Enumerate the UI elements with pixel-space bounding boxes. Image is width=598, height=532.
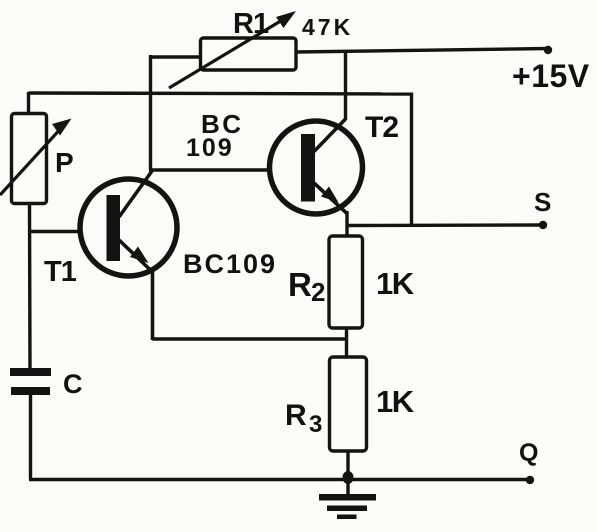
svg-text:P: P [55, 147, 74, 178]
svg-text:109: 109 [186, 134, 234, 162]
svg-text:R: R [288, 266, 312, 303]
svg-text:1K: 1K [376, 266, 415, 301]
svg-text:+15V: +15V [512, 58, 590, 94]
svg-text:T2: T2 [365, 111, 398, 144]
svg-text:Q: Q [519, 439, 538, 467]
svg-text:3: 3 [309, 411, 322, 438]
svg-text:BC109: BC109 [183, 249, 277, 279]
svg-text:1K: 1K [376, 384, 415, 419]
svg-text:R1: R1 [233, 8, 269, 40]
svg-text:S: S [534, 187, 551, 217]
svg-text:C: C [63, 369, 83, 399]
svg-text:47K: 47K [302, 14, 353, 40]
svg-text:R: R [285, 399, 307, 432]
svg-text:T1: T1 [44, 256, 77, 288]
svg-text:2: 2 [311, 277, 325, 307]
